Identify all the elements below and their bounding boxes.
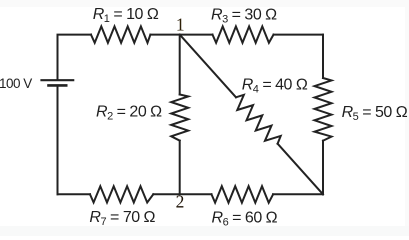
svg-text:R3 = 30 Ω: R3 = 30 Ω: [211, 7, 277, 26]
wire right upper segment: [322, 35, 324, 78]
wire top-middle segment: [150, 34, 212, 36]
resistor R4: [236, 95, 281, 144]
svg-text:R7 = 70 Ω: R7 = 70 Ω: [89, 209, 155, 228]
svg-text:R4 = 40 Ω: R4 = 40 Ω: [242, 76, 308, 95]
resistor R6: [212, 186, 274, 203]
wire top-right segment: [274, 34, 324, 36]
resistor R7: [90, 186, 153, 202]
resistor R2: [171, 95, 188, 141]
svg-text:100 V: 100 V: [0, 76, 32, 91]
wire bottom-right segment: [273, 193, 323, 195]
svg-text:2: 2: [176, 191, 185, 211]
svg-text:R6 = 60 Ω: R6 = 60 Ω: [212, 210, 278, 229]
battery B1 short plate: [47, 84, 67, 87]
resistor R5: [315, 78, 332, 141]
svg-text:R5 = 50 Ω: R5 = 50 Ω: [342, 104, 408, 123]
wire top-left segment: [58, 35, 92, 79]
battery B1 long plate: [40, 79, 74, 81]
resistor R3: [213, 26, 274, 42]
svg-text:R2 = 20 Ω: R2 = 20 Ω: [96, 104, 162, 123]
wire bottom-middle segment: [153, 193, 211, 195]
wire bottom-left segment: [58, 193, 91, 195]
wire middle branch lower (R2 to node 2): [179, 141, 181, 195]
wire diagonal lower (R4 to bottom-right corner): [278, 144, 323, 195]
wire middle branch upper (node 1 to R2): [179, 35, 181, 95]
wire diagonal upper (node 1 to R4): [180, 35, 236, 98]
wire right lower segment: [322, 141, 324, 195]
svg-text:R1 = 10 Ω: R1 = 10 Ω: [93, 6, 159, 25]
wire left lower segment (battery to bottom): [57, 87, 59, 195]
svg-text:1: 1: [176, 15, 185, 35]
resistor R1: [91, 26, 150, 42]
